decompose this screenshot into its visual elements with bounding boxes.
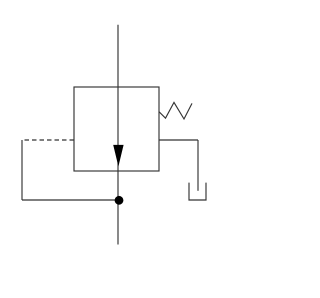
flow-path arrow inside valve (solid, pointing down) bbox=[113, 145, 123, 167]
junction node on outlet line bbox=[115, 196, 124, 205]
wire: bottom horizontal to junction bbox=[22, 199, 119, 201]
spring on right side of valve body bbox=[159, 102, 192, 119]
wire: drain horizontal from valve right side bbox=[159, 139, 198, 141]
pilot line (dashed) from valve left side bbox=[22, 139, 74, 141]
wire: drain vertical into tank bbox=[197, 140, 199, 191]
wire: left vertical pilot return bbox=[21, 140, 23, 200]
valve body envelope (pressure reducing valve square) bbox=[74, 87, 159, 171]
tank (reservoir) symbol bbox=[189, 183, 206, 200]
wire: main vertical supply line through valve bbox=[117, 25, 119, 245]
